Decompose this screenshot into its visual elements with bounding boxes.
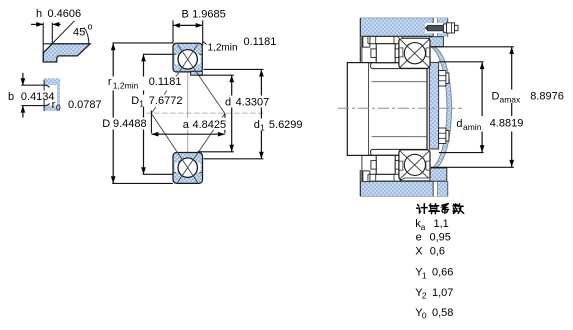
svg-text:0,58: 0,58 [432,307,453,319]
contact line top-left [151,45,197,114]
QJ square bottom (right drawing) [399,150,430,180]
d extension bottom [198,151,234,153]
locating ring bottom [363,171,370,182]
locating ring top [363,36,370,47]
D dimension line [112,43,114,183]
shaft inner line bottom [372,136,427,138]
top ball [178,50,197,69]
label d 4.3307 [223,96,262,108]
title (hand-drawn CJK strokes) [417,204,464,214]
svg-text:1,2min: 1,2min [113,81,139,91]
svg-text:B: B [182,9,189,21]
svg-text:0: 0 [56,103,61,113]
housing bore shoulder strip top [361,36,367,47]
shaft shoulder line [368,63,370,156]
svg-text:5.6299: 5.6299 [269,119,303,131]
joint gap top [433,18,438,37]
45 degree arc [84,28,89,44]
svg-text:0.1181: 0.1181 [149,76,182,88]
damin dimension line [481,62,483,152]
B extension line left [172,20,174,43]
dimension h arrow line left [31,23,43,25]
svg-text:7.6772: 7.6772 [149,95,183,107]
svg-text:D: D [102,118,110,130]
svg-text:0,6: 0,6 [430,245,445,257]
d extension top [198,74,234,76]
svg-text:h: h [36,8,42,20]
label D 9.4488 [100,118,148,130]
svg-text:0.4134: 0.4134 [21,91,55,103]
chamfer top surface line [43,43,90,45]
Damax extension bottom [431,166,514,168]
svg-text:a: a [183,119,190,131]
cap bolt upper [439,71,446,87]
roller bottom: left wall [361,155,363,181]
QJ square top (right drawing) [399,38,430,68]
roller top: left wall [361,36,363,62]
cage plates bottom [371,161,376,170]
Damax dimension line [511,47,513,167]
label d1 5.6299 [252,119,304,132]
bottom white wedge right [197,162,200,173]
shaft inner line top [372,81,427,83]
outer ring flange verticals bottom [367,174,369,181]
top outer square [173,43,202,72]
D1 extension top [143,53,173,55]
roller bottom: outer ring top edge [368,173,401,175]
svg-text:d: d [254,119,260,131]
svg-text:0.0787: 0.0787 [68,99,102,111]
svg-text:1,1: 1,1 [434,218,449,230]
D extension bottom [112,182,173,184]
outer ring flange verticals top [367,37,369,44]
roller top: outer ring bottom edge [368,43,401,45]
svg-text:amax: amax [500,94,522,104]
svg-text:r: r [108,76,112,88]
45 degree line [43,21,74,53]
dimension h arrow line right [52,23,60,25]
arrow b top [22,73,24,85]
svg-text:b: b [8,91,14,103]
Damax extension top [431,46,514,48]
svg-text:45: 45 [73,27,85,39]
char xi [442,204,448,206]
tick lower [43,100,45,111]
D1 extension bottom [143,173,174,175]
label a 4.8425 [181,118,227,130]
housing left edge [359,18,361,62]
housing bore shoulder strip bottom [361,170,367,181]
damin extension bottom [439,152,484,154]
cap bolt lower [439,128,446,144]
svg-text:2: 2 [422,291,427,301]
damin extension top [439,61,484,63]
cover spigot top [429,37,443,47]
horizontal centerline [146,112,266,114]
svg-text:9.4488: 9.4488 [113,118,147,130]
svg-text:4.3307: 4.3307 [236,97,270,109]
d1 dimension line [260,70,262,159]
label damin 4.8819 [455,116,524,132]
B extension line right [202,20,204,45]
label r 1,2min 0.1181 [105,77,182,91]
shaft [347,63,427,156]
svg-text:0.4606: 0.4606 [48,8,82,20]
contact line bottom-right [178,114,225,183]
svg-text:1: 1 [260,123,265,133]
a dimension line [151,133,225,135]
bottom outer square [173,153,203,184]
svg-text:4.8425: 4.8425 [193,119,227,131]
bottom white wedge left [175,162,178,173]
D extension top [113,42,174,44]
bottom raceway lines [174,172,178,174]
joint V mark on housing band [398,37,403,40]
svg-text:D: D [131,95,139,107]
cover spigot bottom [429,168,447,181]
char shu [454,204,456,208]
cage plates top [371,49,376,58]
top white wedge left [175,54,178,65]
chamfer shaded body [43,44,90,62]
joint gap bottom [433,181,438,196]
cover flange top [438,18,448,37]
svg-text:r: r [52,99,56,111]
roller element bottom [376,155,395,174]
roller element top [376,44,395,63]
svg-text:o: o [88,22,93,32]
label Damax 8.8976 [490,90,567,104]
svg-text:1.9685: 1.9685 [192,9,226,21]
arrow b bottom [22,106,24,118]
chamfer second extension line [51,23,53,44]
svg-text:amin: amin [463,122,482,132]
chamfer vertical edge line [42,23,44,63]
top bolt [425,23,443,33]
a tick right [224,114,226,134]
cover shell (bell) [431,47,452,170]
svg-text:D: D [492,90,500,102]
sleeve bottom [371,149,427,155]
svg-text:0: 0 [422,311,427,321]
leader 1,2min [203,41,207,44]
contact line top-right [178,45,225,114]
svg-text:1,07: 1,07 [432,287,453,299]
a tick left [150,111,152,134]
r0 notch upper line with fillet [21,85,49,87]
r0 notch lower line with fillet [21,104,49,106]
svg-text:e: e [416,232,422,244]
d dimension line [231,75,233,152]
svg-text:X: X [415,245,423,257]
svg-text:a: a [421,222,426,232]
svg-text:1,2min: 1,2min [208,43,238,54]
svg-text:1: 1 [422,270,427,280]
centerline right drawing [338,107,462,109]
housing top band [361,18,434,37]
inner ring bottom line [368,154,401,156]
bottom ball [178,158,197,177]
housing bottom band [360,181,433,196]
cover flange bottom [438,181,448,196]
d1 extension bottom [204,158,264,160]
top raceway lines [174,53,178,55]
tick upper [43,80,45,91]
svg-text:d: d [225,97,231,109]
svg-text:d: d [456,118,462,130]
svg-text:1: 1 [139,99,144,109]
label D1 7.6772 [129,95,184,108]
svg-text:0.1181: 0.1181 [244,36,277,48]
B dimension line [173,24,203,26]
r0 shaded body [44,78,60,111]
contact line bottom-left [151,114,197,183]
cover plate [429,62,438,149]
svg-text:0,95: 0,95 [430,232,451,244]
svg-text:4.8819: 4.8819 [490,117,524,129]
char suan [429,204,433,206]
inner ring top line [368,62,401,64]
char ji [418,205,419,207]
top white wedge right [197,54,200,65]
retaining strip below bottom QJ [400,178,431,181]
D1 dimension line [143,54,145,174]
d1 extension top [204,68,264,70]
sleeve top [371,63,427,69]
vertical pitch line [187,43,189,183]
svg-text:0,66: 0,66 [432,267,453,279]
svg-text:8.8976: 8.8976 [530,90,564,102]
top inner-ring lip [191,71,203,75]
